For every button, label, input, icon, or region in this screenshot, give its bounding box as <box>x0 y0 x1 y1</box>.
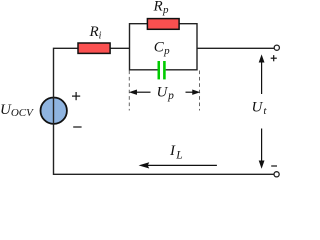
svg-text:Ut: Ut <box>252 100 268 117</box>
svg-text:IL: IL <box>169 143 183 162</box>
svg-text:Rp: Rp <box>153 0 169 16</box>
svg-text:Up: Up <box>157 85 175 103</box>
svg-text:UOCV: UOCV <box>0 102 34 119</box>
svg-text:Ri: Ri <box>89 24 102 42</box>
svg-text:Cp: Cp <box>154 40 170 57</box>
